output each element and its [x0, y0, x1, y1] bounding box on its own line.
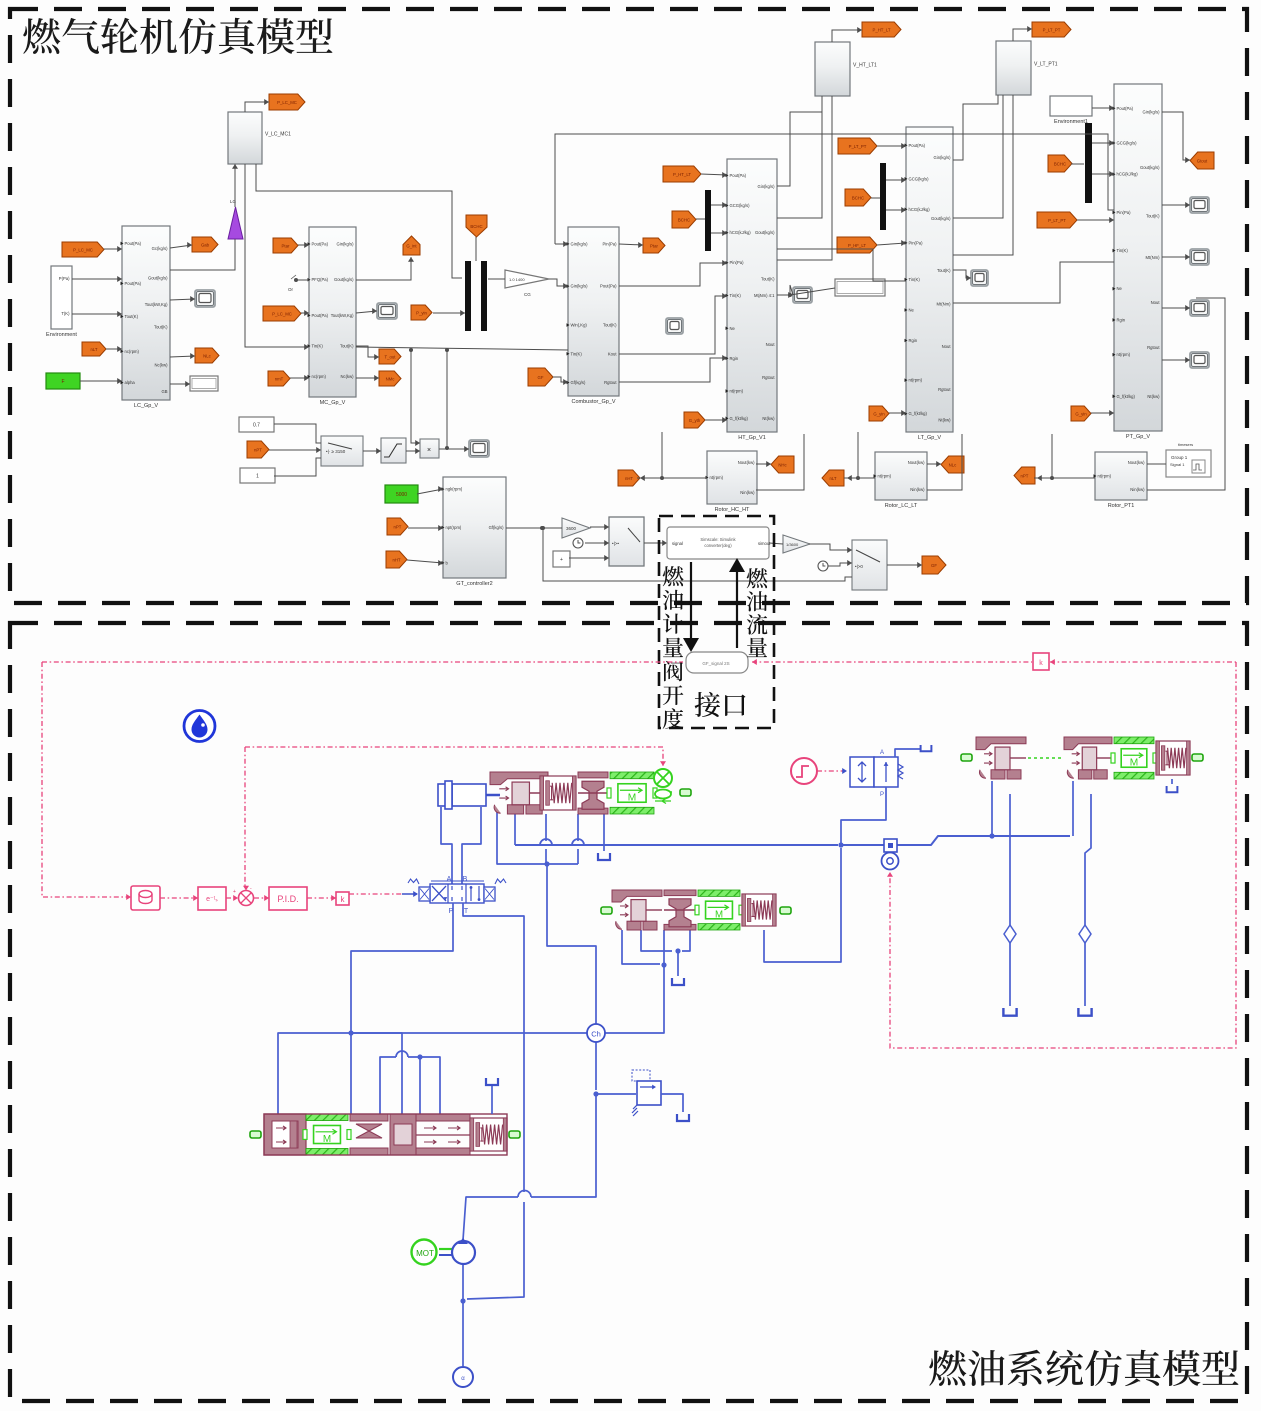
wire V_LC_MC1 loop to bars	[256, 164, 462, 278]
wire LT out to V_LT_PT1 in1	[953, 95, 1003, 218]
svg-text:Rotor_LC_LT: Rotor_LC_LT	[885, 503, 918, 509]
pink block: P.I.D. controller	[269, 887, 307, 910]
pump control unit (green X circle)	[655, 791, 672, 793]
svg-text:Pout(Pa): Pout(Pa)	[312, 313, 329, 318]
block Rotor_LC_LT	[875, 452, 927, 500]
svg-text:Nin(kw): Nin(kw)	[910, 487, 925, 492]
wire G_yin to PT	[1091, 412, 1114, 414]
svg-text:Kout: Kout	[608, 351, 617, 356]
wire rotor PT feedback loop	[1147, 298, 1225, 490]
display HT long	[835, 279, 885, 296]
black bar PT	[1085, 123, 1092, 203]
wire BCHC down to bars	[475, 237, 477, 261]
svg-text:Gin(kg/s): Gin(kg/s)	[571, 241, 589, 246]
svg-text:F: F	[61, 379, 64, 385]
wire PT to scope1	[1162, 204, 1190, 206]
tag BCHC	[466, 215, 487, 237]
wire LC Gout to purple gain	[170, 239, 235, 270]
svg-text:Nout(kw): Nout(kw)	[1128, 460, 1145, 465]
svg-text:G_yth: G_yth	[689, 418, 701, 423]
svg-text:GCG(kg/s): GCG(kg/s)	[909, 176, 930, 181]
wire purple gain to V_LC_MC1	[234, 164, 236, 207]
svg-text:CG: CG	[524, 292, 531, 297]
wire nHT junction up	[661, 432, 663, 478]
svg-text:Nt(kw): Nt(kw)	[938, 417, 951, 422]
svg-text:P_LC_MC: P_LC_MC	[73, 247, 93, 252]
wire P_HT_LT to HT	[701, 174, 727, 175]
stub tank A4	[1171, 779, 1173, 784]
check valve 2	[1079, 925, 1091, 943]
svg-text:Nin(kw): Nin(kw)	[1130, 487, 1145, 492]
green port A2 left	[601, 907, 612, 914]
line up to valve3	[991, 781, 993, 836]
wire rotor LC Nout to NLc	[927, 463, 941, 465]
svg-text:P_HT_LT: P_HT_LT	[872, 27, 890, 32]
wire G_yin to LT	[889, 412, 906, 414]
interface block: GF signal converter	[686, 652, 748, 673]
wire PT to scope3	[1162, 307, 1190, 309]
svg-text:Group 1: Group 1	[1171, 455, 1188, 460]
svg-text:P_LC_MC: P_LC_MC	[277, 100, 297, 105]
wire V_LT_PT1 to tag	[1013, 29, 1032, 41]
svg-text:Ne: Ne	[1117, 286, 1123, 291]
tag Ptar	[273, 238, 298, 253]
line A2 spring side up to bus	[764, 848, 841, 962]
wire BCHC to LT bar	[871, 197, 880, 199]
tank above A5	[486, 1078, 498, 1085]
tag NLc	[195, 348, 219, 363]
pink line: inner loop top	[245, 747, 663, 766]
svg-text:P_HF_LT: P_HF_LT	[848, 243, 866, 248]
svg-text:Nt(kw): Nt(kw)	[762, 416, 775, 421]
servo assembly A4 (top right)	[1064, 737, 1112, 750]
line A2 port2 to tank	[641, 930, 672, 951]
saturation block	[381, 438, 406, 463]
svg-text:simout: simout	[758, 541, 771, 546]
svg-text:G_yin: G_yin	[1075, 411, 1087, 416]
tag GF	[922, 556, 946, 574]
tag G_yin	[1071, 406, 1091, 421]
svg-text:nHT: nHT	[392, 557, 400, 562]
wire F to LC alpha	[80, 380, 122, 382]
wire MC to scope	[356, 311, 377, 313]
svg-text:Signal 1: Signal 1	[1170, 462, 1185, 467]
svg-text:GF_signal 2S: GF_signal 2S	[702, 661, 729, 666]
svg-text:Nin(kw): Nin(kw)	[740, 490, 755, 495]
svg-text:G_yin: G_yin	[873, 411, 885, 416]
svg-text:Tout(K): Tout(K)	[125, 314, 139, 319]
wire HT out to LT Tin	[777, 249, 906, 281]
svg-text:GCG(kg/s): GCG(kg/s)	[1117, 140, 1138, 145]
svg-text:Ptar: Ptar	[650, 243, 658, 248]
pink wire step to valve	[817, 770, 845, 772]
svg-text:Gf(kg/s): Gf(kg/s)	[489, 525, 504, 530]
wire MC to NMc	[356, 377, 379, 379]
wire HT out to V_HT_LT1 in1	[777, 96, 822, 218]
pink line: to sum vertical	[244, 747, 246, 886]
pink line: left drop to memory	[42, 662, 128, 897]
wire bar to LT GCG	[886, 179, 906, 181]
pink wire memory to delay	[160, 897, 198, 899]
green constant F	[46, 373, 80, 389]
block V_LC_MC1	[228, 112, 262, 164]
block Rotor_PT1	[1095, 452, 1147, 500]
wire P_yin to bars	[433, 312, 465, 314]
svg-text:hCG(kJ/kg): hCG(kJ/kg)	[1117, 172, 1139, 177]
svg-text:A: A	[880, 750, 884, 756]
svg-text:Tin(K): Tin(K)	[1117, 248, 1129, 253]
svg-text:BCHC: BCHC	[1054, 161, 1066, 166]
black bar LT	[880, 163, 886, 230]
svg-text:G_f(kt/kg): G_f(kt/kg)	[1117, 394, 1136, 399]
line A1 port4 lower	[577, 849, 579, 864]
line A1 port3 upper	[545, 814, 547, 841]
svg-text:nLT: nLT	[90, 347, 97, 352]
svg-text:P_yin: P_yin	[416, 310, 427, 315]
fluid properties block (droplet)	[184, 711, 215, 742]
svg-text:Nout: Nout	[766, 342, 776, 347]
svg-text:GB: GB	[161, 389, 167, 394]
line T to pump junction	[467, 1202, 524, 1299]
tag P_yin	[411, 305, 432, 320]
svg-text:P(Pa): P(Pa)	[59, 276, 70, 281]
line cylinder to servo A	[441, 807, 452, 884]
svg-text:alpha: alpha	[125, 380, 136, 385]
servo valve 4/3 proportional	[430, 884, 484, 903]
svg-text:Gin(kg/s): Gin(kg/s)	[934, 155, 952, 160]
svg-text:nc(rpm): nc(rpm)	[312, 374, 327, 379]
svg-text:Tout(K): Tout(K)	[1146, 213, 1160, 218]
wire clock2 to switch3	[828, 563, 852, 566]
svg-text:Environment: Environment	[46, 332, 77, 338]
2-position valve (shutoff)	[850, 757, 874, 787]
pink line: top mid to K	[752, 661, 1032, 663]
tag G_yth	[684, 412, 705, 428]
tag P_HT_LT	[663, 166, 701, 182]
wire nmT to MC	[290, 377, 309, 379]
wire Or to MC	[296, 279, 309, 281]
wire to scope HT	[790, 285, 793, 295]
svg-text:Nc(kw): Nc(kw)	[154, 363, 168, 368]
block GT_controller2	[443, 477, 506, 578]
line A1 port2 to bus	[514, 811, 516, 845]
svg-text:BCHC: BCHC	[470, 224, 482, 229]
tag nPT	[247, 441, 269, 458]
wire LC Nc to NLc	[170, 356, 195, 357]
svg-text:Mt(Nm): Mt(Nm)	[1146, 255, 1161, 260]
block Combustor_Gp_V	[568, 227, 619, 396]
wire clock to switch2	[585, 542, 609, 544]
wire nPT to switch	[269, 449, 321, 451]
pressure gauge	[882, 853, 899, 870]
svg-text:nmT: nmT	[275, 376, 284, 381]
block V_LT_PT1	[996, 41, 1031, 95]
wire bars to CG	[488, 278, 505, 280]
svg-text:Gout(kg/s): Gout(kg/s)	[1140, 165, 1160, 170]
wire bar to HT GCG	[711, 204, 727, 206]
bus crossing bumps	[540, 839, 584, 845]
svg-text:PFQ(Pa): PFQ(Pa)	[312, 277, 329, 282]
clock 2	[818, 561, 828, 571]
svg-text:Mt(Nm): Mt(Nm)	[937, 301, 952, 306]
switch block 2	[609, 517, 644, 566]
label: interface	[695, 692, 746, 717]
line A2 port1 link	[622, 930, 660, 964]
wire MC Gout to G_int	[356, 257, 411, 280]
svg-text:×: ×	[427, 447, 431, 454]
pink line: K to right corner	[1050, 661, 1236, 663]
svg-text:P_LC_MC: P_LC_MC	[272, 311, 292, 316]
wire rotor PT to group	[1147, 463, 1166, 465]
svg-text:Tout(K): Tout(K)	[603, 323, 617, 328]
svg-text:P_LT_PT: P_LT_PT	[1048, 218, 1066, 223]
line Ch down	[595, 1041, 597, 1090]
wire down to product in1	[411, 350, 420, 443]
wire LT out to V_LT_PT1 in2	[953, 95, 1013, 255]
svg-text:npt(rpm): npt(rpm)	[446, 525, 462, 530]
pink block: gain k	[336, 892, 349, 905]
svg-text:Gout(kg/s): Gout(kg/s)	[755, 230, 775, 235]
tag P_LT_PT	[1037, 212, 1077, 228]
svg-text:T: T	[464, 908, 469, 915]
tag P_LC_MC	[62, 242, 104, 257]
wire bar to PT hCG	[1092, 173, 1114, 175]
svg-text:PT_Gp_V: PT_Gp_V	[1126, 434, 1150, 440]
wire GT to gain	[506, 527, 562, 529]
tag BCHC	[845, 189, 871, 206]
scope PT1	[1190, 197, 1209, 213]
line to pump top	[463, 1197, 518, 1240]
svg-text:hCG(kJ/kg): hCG(kJ/kg)	[730, 230, 752, 235]
wire env T to LC	[72, 313, 122, 315]
svg-text:HT_Gp_V1: HT_Gp_V1	[738, 435, 766, 441]
tag nPT	[1014, 467, 1035, 484]
wire CG to combustor	[549, 279, 568, 286]
line cylinder to servo B	[462, 807, 481, 884]
tag Ptar	[643, 238, 665, 253]
tag G_int	[403, 236, 420, 255]
purple gain triangle LG	[228, 207, 243, 239]
wire interface to gain2	[769, 543, 783, 544]
step source	[791, 758, 817, 784]
svg-text:nt(rpm): nt(rpm)	[1098, 474, 1112, 479]
svg-text:Ptar: Ptar	[282, 243, 290, 248]
wire env P to LC	[72, 278, 122, 280]
line valve4 port2 down	[1085, 794, 1091, 925]
svg-text:Pout(Pa): Pout(Pa)	[312, 242, 329, 247]
tank under A1	[598, 853, 610, 860]
wire to display HT	[790, 288, 835, 295]
interface dashed box	[659, 516, 774, 728]
wire combustor Pin to Ptar	[619, 244, 643, 245]
tag nLT	[822, 470, 844, 486]
svg-text:Rgin: Rgin	[909, 338, 918, 343]
wire rotor LC Nin loop up	[927, 434, 962, 490]
wire 5000 to GT	[417, 489, 443, 494]
svg-text:MtjNm) 4:1: MtjNm) 4:1	[754, 293, 775, 298]
pink wire PID to k	[307, 897, 336, 899]
bus to right valves	[841, 836, 1070, 845]
pink wire delay to sum	[226, 897, 238, 899]
outer dashed border: gas turbine model box	[10, 9, 1247, 603]
svg-text:converter(deg): converter(deg)	[704, 543, 732, 548]
wire LT Gout to V_LT_PT1	[953, 95, 998, 160]
svg-text:T(K): T(K)	[61, 311, 70, 316]
svg-text:Combustor_Gp_V: Combustor_Gp_V	[571, 399, 615, 405]
block V_HT_LT1	[815, 42, 850, 96]
wire BCHC to HT bar	[696, 218, 705, 220]
tag P_LC_MC	[263, 306, 301, 321]
wire bypass to switch3	[543, 528, 852, 581]
svg-text:nt(rpm): nt(rpm)	[710, 475, 724, 480]
svg-text:B: B	[463, 876, 468, 883]
tag BCHC	[672, 211, 696, 228]
pink wire k to servo valve	[349, 893, 402, 895]
tag nHT	[386, 551, 407, 568]
scope PT3	[1190, 300, 1209, 316]
bump crossing T line over pump line	[518, 1191, 531, 1198]
svg-text:Pin(Pa): Pin(Pa)	[1117, 210, 1132, 215]
svg-text:Rgin: Rgin	[1117, 317, 1126, 322]
wire 0.7 to switch	[274, 424, 321, 443]
svg-text:M: M	[715, 909, 723, 920]
scope HT	[793, 287, 812, 303]
tank valve5	[921, 745, 932, 751]
wire P_LT_PT to PT Pin	[1077, 219, 1114, 221]
title: gas turbine simulation model	[23, 18, 332, 54]
svg-text:GF: GF	[931, 563, 937, 568]
svg-text:V_LT_PT1: V_LT_PT1	[1034, 61, 1058, 67]
svg-text:Gab: Gab	[201, 242, 210, 247]
svg-text:Ch: Ch	[591, 1030, 601, 1039]
svg-text:nPT: nPT	[254, 447, 262, 452]
svg-text:1/3600: 1/3600	[786, 542, 799, 547]
wire nLT tag from rotor	[844, 477, 875, 479]
block MC_Gp_V	[309, 227, 356, 397]
display LC	[190, 376, 218, 391]
tag nmT	[268, 371, 290, 386]
wire LT to scope	[953, 270, 971, 278]
pink arrowhead into pump control	[660, 761, 666, 766]
svg-text:GT_controller2: GT_controller2	[456, 581, 492, 587]
svg-text:NHc: NHc	[778, 462, 787, 467]
tag Gtout	[1190, 152, 1214, 169]
svg-text:GF: GF	[538, 375, 544, 380]
tag NMc	[379, 371, 401, 386]
line down to pump line	[531, 1094, 596, 1197]
svg-text:NLc: NLc	[949, 462, 957, 467]
wire LC GB to display	[170, 383, 190, 385]
black bar pair (combustor inlet mixer)	[465, 261, 471, 331]
big down arrow: metering valve opening	[690, 562, 692, 638]
pink arrowhead into K	[1050, 659, 1055, 665]
label: fuel flow (vertical)	[747, 568, 768, 657]
svg-text:nPT: nPT	[394, 524, 402, 529]
svg-text:1.0 1400: 1.0 1400	[509, 277, 525, 282]
block Environment1	[1050, 96, 1092, 116]
svg-text:Pin(Pa): Pin(Pa)	[909, 240, 924, 245]
svg-text:nt(rpm): nt(rpm)	[730, 389, 744, 394]
svg-text:Rgtout: Rgtout	[604, 380, 617, 385]
svg-text:0.7: 0.7	[253, 423, 260, 429]
green port A4 right	[1192, 754, 1203, 761]
svg-text:nt(rpm): nt(rpm)	[878, 474, 892, 479]
svg-text:Environment1: Environment1	[1054, 119, 1088, 125]
tag P_LT_PT	[838, 138, 877, 154]
wire PT to scope4	[1162, 359, 1190, 361]
reservoir circle	[453, 1367, 473, 1387]
svg-text:Gout(kg/s): Gout(kg/s)	[334, 277, 354, 282]
svg-text:•|· ≥ 3150: •|· ≥ 3150	[326, 449, 346, 454]
wire V_LC_MC1 to MC Tin	[245, 164, 309, 347]
svg-text:Nout: Nout	[1151, 300, 1161, 305]
wire Env1 to PT	[1092, 107, 1114, 109]
svg-text:Tin(K): Tin(K)	[730, 293, 742, 298]
svg-text:Gin(kg/s): Gin(kg/s)	[758, 184, 776, 189]
svg-text:Gin(kg/s): Gin(kg/s)	[337, 242, 355, 247]
svg-text:Rotor_HC_HT: Rotor_HC_HT	[715, 507, 750, 513]
wire P_LT_PT to LT in1	[877, 145, 906, 147]
wire nLT junction up	[857, 432, 859, 478]
wire 1 to switch	[274, 458, 321, 476]
svg-text:Tout(K): Tout(K)	[937, 268, 951, 273]
wire nHT to GT	[407, 560, 443, 563]
wire HT Tout	[777, 294, 790, 296]
svg-text:Or: Or	[288, 287, 294, 292]
svg-text:Nt(kw): Nt(kw)	[1147, 394, 1160, 399]
wire switch3 to GF	[887, 564, 922, 566]
svg-text:P: P	[880, 792, 884, 798]
svg-text:k: k	[1039, 660, 1043, 667]
line from A1 to Ch top	[547, 864, 596, 1025]
svg-text:LT_Gp_V: LT_Gp_V	[918, 435, 941, 441]
svg-text:timesers: timesers	[1178, 442, 1193, 447]
label: fuel metering valve opening (vertical)	[663, 566, 684, 729]
wire LC to scope	[170, 299, 195, 300]
pink-blue transition arrow	[402, 893, 417, 895]
svg-text:Ne: Ne	[730, 326, 736, 331]
wire GF to combustor	[553, 377, 568, 382]
stub tank A2	[677, 951, 679, 976]
line valve5 to tank	[895, 749, 921, 757]
tank under A2	[672, 978, 684, 985]
block LC_Gp_V	[122, 226, 170, 400]
line A2 port3 to Ch	[604, 930, 664, 1033]
block LT_Gp_V	[906, 127, 953, 432]
wire nPT junction up	[1051, 434, 1053, 478]
wire rotor HC Nout to NHc	[756, 463, 771, 465]
svg-text:Pout(Pa): Pout(Pa)	[730, 173, 747, 178]
svg-text:signal: signal	[672, 541, 683, 546]
svg-text:Pout(Pa): Pout(Pa)	[125, 281, 142, 286]
svg-text:G_f(kt/kg): G_f(kt/kg)	[730, 416, 749, 421]
svg-text:V_LC_MC1: V_LC_MC1	[265, 131, 291, 137]
wire V_HT_LT1 to tag	[832, 30, 862, 42]
line valve5 P down to bus	[841, 787, 886, 845]
wire bar to LT hCG	[886, 209, 906, 211]
line branch left	[278, 1033, 351, 1114]
wire combustor Kout to HT	[619, 296, 727, 354]
wire saturation to product	[406, 450, 420, 452]
green port A3 left	[961, 754, 972, 761]
line A2 port4	[682, 930, 690, 951]
tag nLT	[82, 342, 106, 356]
line check2 to tank	[1084, 943, 1086, 1006]
green port A5 right	[509, 1131, 520, 1138]
wire product to scope	[439, 448, 469, 450]
svg-text:Tin(K): Tin(K)	[571, 351, 583, 356]
line A5 y1057 left	[380, 1057, 396, 1114]
